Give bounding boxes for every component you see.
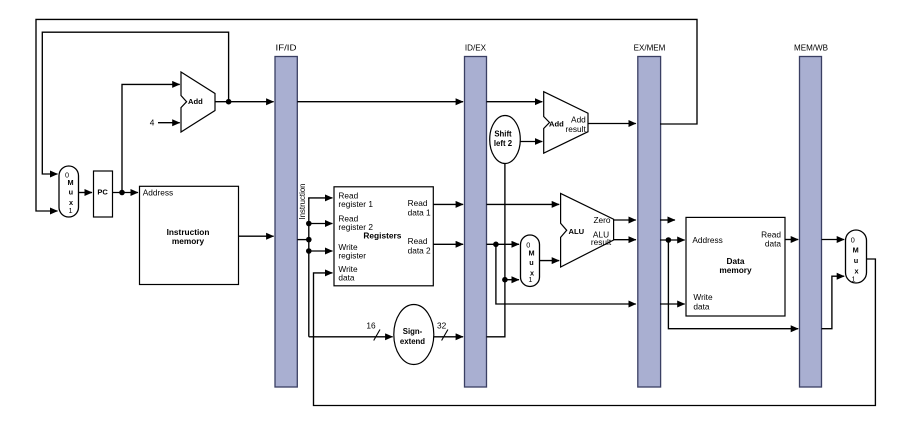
wire ALU mux output to ALU lower input [540, 260, 560, 262]
wire PC value up to Add1 upper input [122, 84, 180, 192]
register PC [94, 171, 113, 217]
svg-text:Add: Add [571, 114, 586, 124]
svg-text:u: u [69, 188, 73, 197]
node Add1 output junction [226, 99, 232, 105]
node PC output junction [119, 190, 125, 196]
svg-text:Shift: Shift [494, 129, 512, 138]
svg-text:1: 1 [528, 275, 532, 284]
pipeline register ID/EX [465, 42, 487, 387]
svg-text:PC: PC [97, 188, 108, 197]
svg-text:MEM/WB: MEM/WB [794, 42, 828, 52]
svg-text:0: 0 [851, 236, 855, 245]
shift left 2 [490, 116, 521, 164]
svg-text:data 1: data 1 [408, 207, 431, 217]
node read data 2 junction [493, 242, 499, 248]
wire constant 4 into Add1 [158, 122, 180, 124]
svg-text:Zero: Zero [593, 215, 610, 225]
wire instruction low 16 bits to sign-extend [309, 336, 393, 338]
sign-extend [394, 305, 434, 365]
svg-text:result: result [591, 237, 612, 247]
svg-text:1: 1 [68, 206, 72, 215]
wire shift-left-2 output to Add2 lower input [520, 141, 542, 143]
pipeline register MEM/WB [794, 42, 828, 387]
adder Add1 (PC+4) [181, 72, 215, 132]
wire read data from data memory to MEM/WB [785, 239, 798, 241]
wire instruction memory output to IF/ID [239, 235, 274, 237]
svg-text:IF/ID: IF/ID [276, 42, 297, 52]
wire to Write register [309, 250, 333, 252]
svg-text:4: 4 [150, 118, 155, 128]
wire to Read register 1 [308, 197, 332, 199]
wire ALU result from MEM/WB to mux M3 input 1 [822, 276, 845, 329]
svg-text:Write: Write [693, 292, 713, 302]
wire ALU Zero output to EX/MEM [614, 219, 636, 221]
svg-text:data: data [338, 272, 355, 282]
svg-text:data: data [765, 239, 782, 249]
wire Read data 2 from ID/EX to ALU mux input 0 [487, 243, 520, 245]
wire ALU result from EX/MEM to data memory Address [660, 239, 685, 241]
wire ALU result to EX/MEM [614, 239, 636, 241]
node instruction main junction [306, 237, 312, 243]
wire read data from MEM/WB to mux M3 input 0 [822, 239, 845, 241]
label 16 bit-width slash [374, 330, 380, 341]
mux M1 (PC source mux) [59, 166, 79, 217]
adder Add2 (branch target) [544, 92, 588, 154]
wire PC+4 from IF/ID to ID/EX [297, 101, 463, 103]
svg-text:Registers: Registers [363, 231, 401, 241]
svg-text:ALU: ALU [569, 227, 585, 236]
label 32 bit-width slash [442, 330, 448, 341]
svg-text:data 2: data 2 [408, 245, 431, 255]
wire PC output to instruction memory Address [113, 192, 139, 194]
wire Read data 1 to ID/EX [433, 203, 463, 205]
wire Read data 1 from ID/EX to ALU [487, 203, 560, 205]
registers [334, 187, 433, 286]
svg-text:M: M [528, 249, 534, 258]
wire to Read register 2 [309, 223, 333, 225]
svg-text:memory: memory [719, 265, 752, 275]
wire write-back loop from mux M3 to registers Write data [314, 259, 876, 406]
svg-text:extend: extend [400, 337, 425, 346]
wire read data 2 down to memory write data path [496, 244, 636, 304]
wire Add2 output to EX/MEM [588, 123, 636, 125]
node ALU result junction [666, 237, 672, 243]
wire Zero stub out of EX/MEM [660, 219, 675, 221]
wire sign-extended immediate from ID/EX up to shift-left-2 [487, 164, 505, 337]
svg-text:Address: Address [143, 187, 173, 197]
wire immediate to ALU mux input 1 [505, 279, 519, 281]
svg-text:M: M [67, 178, 73, 187]
svg-text:Add: Add [188, 97, 203, 106]
wire Read data 2 to ID/EX [433, 243, 463, 245]
wire Add1 output to IF/ID [215, 101, 274, 103]
pipeline register IF/ID [275, 42, 297, 387]
svg-text:data: data [693, 302, 710, 312]
svg-text:Address: Address [692, 235, 722, 245]
pipeline register EX/MEM [634, 42, 666, 387]
node instruction junction write register [306, 248, 312, 254]
svg-text:memory: memory [172, 236, 205, 246]
svg-text:16: 16 [366, 320, 376, 330]
wire ALU result bypass under data memory to MEM/WB [668, 240, 798, 329]
svg-text:Add: Add [549, 120, 564, 129]
svg-text:u: u [854, 256, 858, 265]
node instruction junction read register 2 [306, 221, 312, 227]
svg-text:register 1: register 1 [338, 199, 373, 209]
wire mux M1 output to PC [79, 192, 93, 194]
svg-text:u: u [529, 258, 533, 267]
svg-text:EX/MEM: EX/MEM [634, 42, 666, 52]
svg-text:Sign-: Sign- [403, 327, 423, 336]
svg-text:M: M [853, 245, 859, 254]
mux M3 (write-back mux) [846, 230, 867, 283]
svg-text:result: result [566, 124, 587, 134]
node immediate branch to ALU mux [502, 277, 508, 283]
svg-text:left 2: left 2 [494, 139, 513, 148]
data memory [686, 217, 785, 316]
wire write data from EX/MEM to data memory [660, 303, 685, 305]
wire instruction from IF/ID to register-file junction [297, 239, 309, 241]
svg-text:register: register [338, 250, 366, 260]
wire PC+4 from ID/EX to Add2 [487, 101, 543, 103]
instruction memory [140, 186, 239, 284]
op-amp ALU [561, 193, 614, 267]
wire PC+4 loop from Add1 output to PC mux input 0 [42, 32, 228, 174]
svg-text:32: 32 [437, 320, 447, 330]
svg-text:1: 1 [851, 274, 855, 283]
wire sign-extend output to ID/EX [434, 336, 463, 338]
wire instruction vertical bus [308, 198, 310, 337]
svg-text:Instruction: Instruction [297, 183, 307, 219]
wire branch-target loop from EX/MEM Add result to PC mux input 1 [36, 19, 697, 211]
svg-text:ID/EX: ID/EX [465, 42, 487, 52]
mux M2 (ALU source mux) [521, 235, 540, 287]
